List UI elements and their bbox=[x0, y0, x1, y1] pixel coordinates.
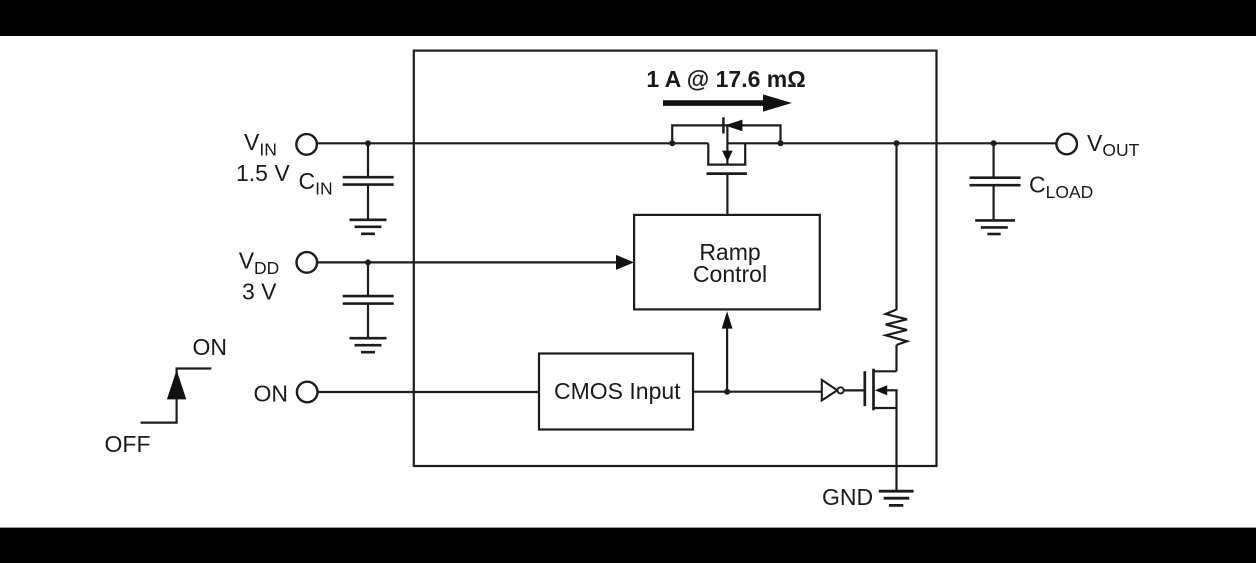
wire NMOS source to GND bbox=[895, 390, 897, 491]
svg-text:3 V: 3 V bbox=[242, 279, 277, 305]
ground below CIN bbox=[350, 220, 387, 234]
pass transistor Q1 source stub bbox=[707, 143, 709, 164]
NMOS Q2 source stub bbox=[874, 407, 897, 409]
diode cathode bar bbox=[722, 117, 725, 133]
wire CLOAD lower lead bbox=[992, 185, 994, 220]
inverter buffer triangle bbox=[822, 380, 838, 401]
terminal circle VOUT bbox=[1056, 134, 1077, 155]
ground below VDD cap bbox=[350, 338, 387, 352]
wire CLOAD upper lead bbox=[992, 143, 994, 177]
IC boundary box U1 bbox=[414, 51, 937, 466]
wire VDD cap lower lead bbox=[367, 304, 369, 338]
node dot CIN junction bbox=[365, 140, 371, 146]
label Ramp Control bbox=[693, 239, 767, 287]
CMOS Input block bbox=[539, 354, 693, 430]
wire CIN lower lead bbox=[367, 185, 369, 220]
wire up to Ramp Control bbox=[726, 327, 728, 392]
svg-text:ON: ON bbox=[193, 334, 228, 360]
svg-text:OFF: OFF bbox=[105, 431, 151, 457]
node dot resistor junction bbox=[894, 140, 900, 146]
ground symbol GND bbox=[879, 491, 914, 505]
wire inverter to NMOS gate bbox=[844, 389, 865, 391]
svg-text:CMOS Input: CMOS Input bbox=[554, 378, 681, 404]
svg-text:1.5 V: 1.5 V bbox=[236, 160, 290, 186]
pass transistor Q1 body arrow bbox=[722, 125, 733, 163]
wire VDD to Ramp Control bbox=[317, 261, 617, 263]
wire VDD cap upper lead bbox=[367, 262, 369, 296]
svg-text:GND: GND bbox=[822, 484, 873, 510]
svg-text:ON: ON bbox=[254, 381, 289, 407]
wire drain to resistor bbox=[895, 345, 897, 371]
wire body diode loop bbox=[672, 125, 780, 143]
svg-text:1 A @ 17.6 mΩ: 1 A @ 17.6 mΩ bbox=[646, 66, 805, 92]
wire CIN upper lead bbox=[367, 143, 369, 177]
node dot CMOS output junction bbox=[724, 389, 730, 395]
pass transistor Q1 gate bar bbox=[707, 172, 747, 175]
terminal circle ON bbox=[297, 382, 318, 403]
step waveform arrowhead bbox=[167, 370, 186, 399]
node dot loop right bbox=[778, 140, 784, 146]
wire resistor to output node bbox=[895, 143, 897, 310]
NMOS Q2 drain stub bbox=[874, 370, 897, 372]
on-off step waveform bbox=[141, 369, 212, 423]
NMOS Q2 body arrow bbox=[875, 385, 898, 395]
capacitor CLOAD bbox=[970, 178, 1021, 186]
diode arrow bbox=[725, 120, 743, 132]
node dot CLOAD junction bbox=[991, 140, 997, 146]
arrowhead into Ramp Control bbox=[616, 255, 634, 270]
ground below CLOAD bbox=[975, 220, 1015, 234]
wire gate of Q1 to Ramp Control bbox=[726, 174, 728, 215]
svg-text:Control: Control bbox=[693, 261, 767, 287]
pass transistor Q1 channel bbox=[707, 164, 746, 166]
inverter bubble bbox=[838, 387, 844, 393]
capacitor CIN bbox=[343, 177, 394, 184]
NMOS Q2 channel bar bbox=[872, 369, 875, 411]
pass transistor Q1 drain stub bbox=[744, 143, 746, 164]
terminal circle VIN bbox=[296, 134, 317, 155]
resistor R1 bbox=[886, 310, 907, 346]
arrowhead into Ramp Control bottom bbox=[722, 311, 733, 328]
bottom letterbox bar bbox=[0, 528, 1256, 563]
capacitor on VDD bbox=[343, 296, 394, 304]
wire main line left segment (VIN to pass FET) bbox=[317, 142, 708, 144]
NMOS Q2 gate bar bbox=[863, 371, 866, 406]
wire CMOS Input output bbox=[693, 391, 822, 393]
node dot loop left bbox=[669, 140, 675, 146]
Ramp Control block bbox=[634, 215, 820, 310]
terminal circle VDD bbox=[297, 252, 318, 273]
wire ON to CMOS Input bbox=[318, 391, 539, 393]
wire main line right segment (pass FET to VOUT) bbox=[727, 142, 1056, 144]
top letterbox bar bbox=[0, 0, 1256, 36]
current direction arrow bbox=[663, 94, 792, 111]
node dot VDD junction bbox=[365, 259, 371, 265]
